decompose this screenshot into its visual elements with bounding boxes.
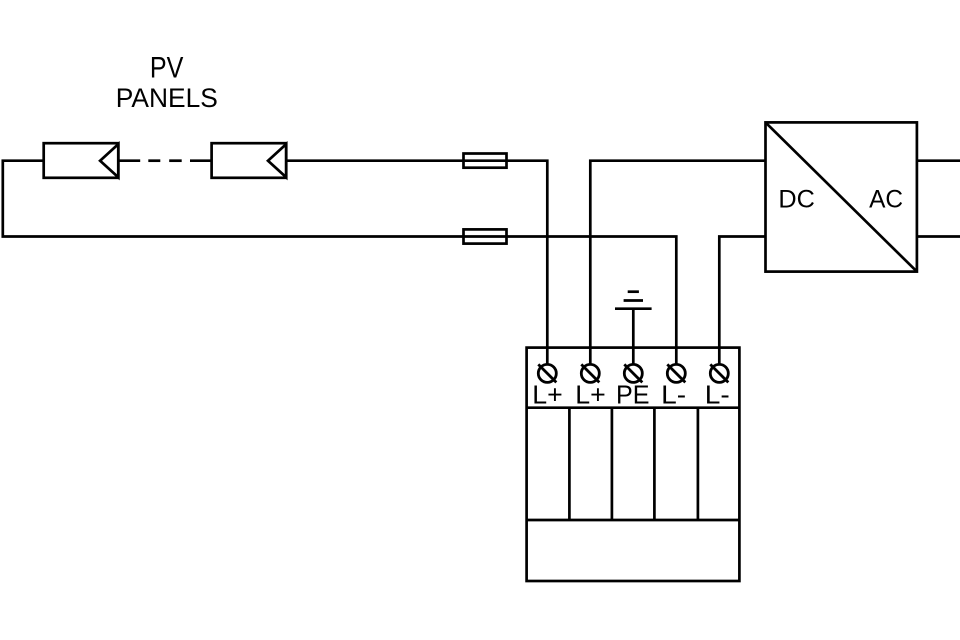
- svg-text:AC: AC: [869, 186, 903, 214]
- SPD divider upper: [527, 406, 740, 409]
- SPD terminal block outline: [527, 348, 740, 581]
- SPD module slot divider 1: [568, 408, 571, 520]
- terminal 5 screw: [710, 364, 728, 382]
- SPD module slot divider 4: [697, 408, 700, 520]
- terminal 4 screw: [667, 364, 685, 382]
- fuse F1: [464, 154, 507, 168]
- wire dashed (series panels omitted): [148, 159, 160, 162]
- wire PE to terminal 3: [632, 309, 635, 365]
- wire dashes to PV2: [190, 159, 212, 162]
- svg-text:DC: DC: [778, 186, 815, 214]
- fuse F2: [464, 229, 507, 243]
- ground symbol (earth, inverted): [628, 290, 639, 293]
- wire left return loop: [3, 161, 464, 237]
- SPD module slot divider 3: [653, 408, 656, 520]
- wire terminal 2 to inverter DC input: [590, 161, 765, 365]
- svg-text:L-: L-: [661, 380, 686, 410]
- pv panel PV1 arrow: [100, 144, 118, 177]
- svg-text:PE: PE: [616, 380, 650, 410]
- wire AC output bottom: [917, 235, 960, 238]
- wire L+ top to terminal 1: [286, 161, 547, 365]
- wire terminal 5 to inverter DC input: [719, 237, 765, 365]
- svg-text:L+: L+: [532, 380, 563, 410]
- inverter U1 box: [766, 122, 917, 271]
- svg-text:L-: L-: [705, 380, 730, 410]
- wire AC output top: [917, 159, 960, 162]
- pv panel PV2: [212, 143, 287, 178]
- pv panel PV1: [44, 143, 119, 178]
- label PV PANELS: [116, 51, 218, 113]
- pv panel PV2 arrow: [268, 144, 286, 177]
- terminal 1 screw: [538, 364, 556, 382]
- svg-text:PANELS: PANELS: [116, 83, 218, 113]
- wire bottom L- to terminal 4: [464, 237, 677, 365]
- SPD module slot divider 2: [611, 408, 614, 520]
- svg-text:PV: PV: [150, 51, 184, 84]
- wire PV1 to dashes: [118, 159, 140, 162]
- terminal 2 screw: [581, 364, 599, 382]
- SPD divider lower: [527, 519, 740, 522]
- inverter U1 diagonal: [766, 122, 917, 271]
- svg-text:L+: L+: [575, 380, 606, 410]
- terminal 3 screw: [624, 364, 642, 382]
